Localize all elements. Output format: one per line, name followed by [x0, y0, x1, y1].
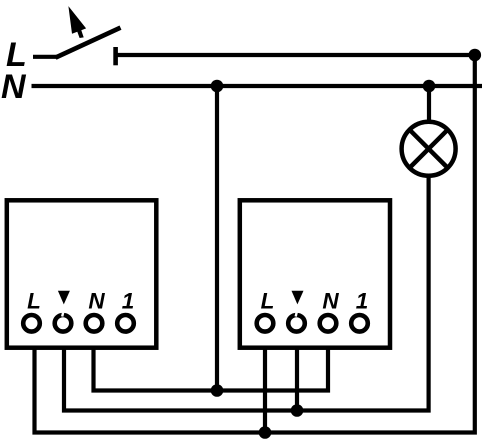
- relay U1 output terminal: [55, 310, 72, 332]
- relay U1 terminal 1: [117, 315, 134, 332]
- svg-text:N: N: [322, 289, 339, 314]
- relay U2 box: [240, 200, 390, 347]
- junction U2 output to rail: [291, 404, 304, 417]
- relay U2 output arrow label: [292, 291, 304, 305]
- wire L line (switch to top-right corner): [116, 53, 475, 57]
- switch S1 fixed contact: [113, 47, 118, 65]
- wire lamp return to switched-output rail: [64, 174, 429, 411]
- relay U1 box: [7, 200, 157, 347]
- switch S1 actuation arrow: [68, 6, 86, 38]
- relay U1 terminal L: [23, 315, 40, 332]
- relay U2 output terminal: [288, 310, 305, 332]
- relay U1 output arrow label: [58, 291, 70, 305]
- relay U1 terminal N: [86, 315, 103, 332]
- svg-text:N: N: [88, 289, 105, 314]
- wire N drop to relay N terminals: [215, 86, 219, 391]
- junction N line to drop: [211, 80, 224, 93]
- junction U2 L to rail: [259, 426, 272, 439]
- svg-text:N: N: [1, 68, 27, 106]
- wire L lead to switch: [33, 55, 57, 59]
- wire relay U2 L terminal drop: [263, 348, 267, 433]
- lamp E1: [402, 122, 456, 176]
- wire L rail (right drop and bottom run to relay L terminals): [35, 55, 475, 433]
- junction top-right L corner: [469, 49, 482, 62]
- junction N to lamp: [423, 80, 436, 93]
- wire lamp feed from N line: [427, 86, 431, 124]
- wire N line: [32, 84, 482, 88]
- relay U2 terminal L: [257, 315, 274, 332]
- relay U2 terminal N: [320, 315, 337, 332]
- switch S1 blade: [56, 28, 121, 58]
- wire relay U2 output terminal drop: [295, 348, 299, 411]
- relay U2 terminal 1: [351, 315, 368, 332]
- wire N bottom run between relay N terminals: [94, 348, 329, 391]
- svg-text:L: L: [27, 289, 41, 314]
- svg-text:1: 1: [122, 289, 135, 314]
- junction N bottom run: [211, 384, 224, 397]
- svg-text:1: 1: [356, 289, 369, 314]
- svg-text:L: L: [261, 289, 275, 314]
